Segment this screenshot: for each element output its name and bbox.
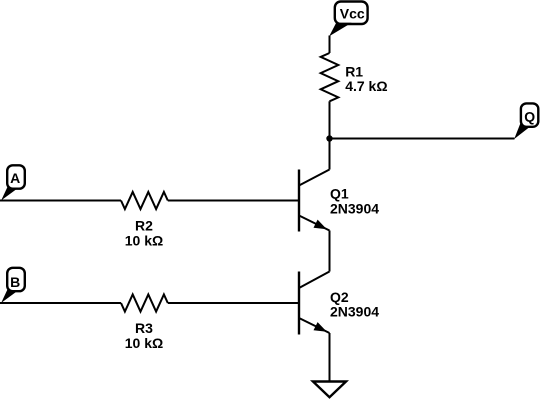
resistor R3: [121, 294, 168, 311]
svg-text:10 kΩ: 10 kΩ: [125, 232, 163, 248]
transistor Q1: [299, 170, 330, 232]
wire node to Q: [330, 138, 515, 140]
svg-text:Q: Q: [524, 108, 535, 124]
ground: [313, 382, 346, 398]
wire Vcc to R1: [329, 36, 331, 54]
output flag Q: [514, 103, 538, 139]
power flag Vcc: [329, 2, 367, 37]
resistor R1: [321, 53, 339, 101]
node output junction: [326, 135, 332, 141]
input flag B: [1, 268, 25, 303]
svg-text:A: A: [10, 170, 20, 186]
label Q1 2N3904: [330, 186, 379, 217]
label R2 10 kOhm: [125, 218, 163, 249]
transistor Q2: [299, 272, 330, 335]
wire Q1 emitter to Q2 collector: [329, 231, 331, 272]
wire R3 to Q2 base: [168, 302, 299, 304]
svg-text:R1: R1: [345, 63, 363, 79]
label R3 10 kOhm: [125, 320, 163, 351]
svg-text:10 kΩ: 10 kΩ: [125, 335, 163, 351]
svg-text:2N3904: 2N3904: [330, 201, 379, 217]
wire A to R2: [0, 200, 121, 202]
wire Q2 emitter to ground: [329, 333, 331, 382]
svg-text:4.7 kΩ: 4.7 kΩ: [345, 78, 387, 94]
svg-text:R2: R2: [135, 218, 153, 234]
label Q2 2N3904: [330, 289, 379, 320]
wire R1 to Q1 collector: [329, 101, 331, 169]
input flag A: [1, 165, 25, 200]
wire B to R3: [0, 302, 121, 304]
label R1 4.7 kOhm: [345, 63, 387, 94]
svg-text:Vcc: Vcc: [340, 6, 365, 22]
wire R2 to Q1 base: [168, 200, 299, 202]
svg-text:B: B: [10, 274, 20, 290]
resistor R2: [121, 192, 168, 209]
svg-text:Q1: Q1: [330, 186, 349, 202]
svg-text:Q2: Q2: [330, 289, 349, 305]
svg-text:2N3904: 2N3904: [330, 304, 379, 320]
svg-text:R3: R3: [135, 320, 153, 336]
